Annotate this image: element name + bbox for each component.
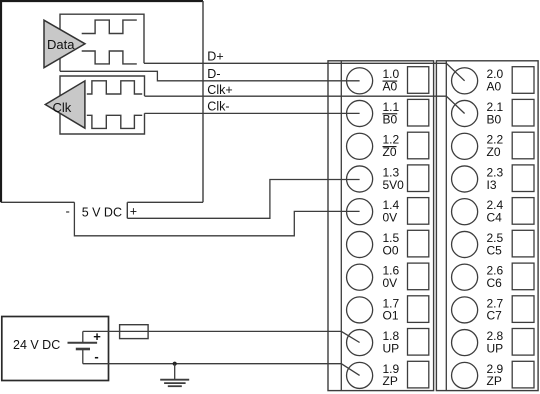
label terminal 1.8 UP: [383, 329, 400, 355]
label terminal 1.7 O1: [383, 296, 400, 322]
svg-text:5V0: 5V0: [383, 178, 405, 192]
svg-text:B0: B0: [487, 112, 502, 126]
label terminal 2.4 C4: [487, 198, 504, 224]
svg-text:D+: D+: [207, 50, 223, 64]
svg-text:UP: UP: [487, 341, 504, 355]
label terminal 2.2 Z0: [487, 133, 504, 159]
svg-text:Clk: Clk: [53, 100, 72, 115]
right terminal block outline: [436, 61, 538, 391]
svg-text:A0: A0: [383, 80, 398, 94]
label terminal 1.0 A0: [383, 67, 400, 93]
svg-text:I3: I3: [487, 178, 497, 192]
Clk amplifier triangle: [45, 81, 85, 128]
svg-text:Data: Data: [47, 37, 75, 52]
fuse F1: [120, 325, 149, 339]
label terminal 2.3 I3: [487, 165, 504, 191]
label terminal 2.0 A0: [487, 67, 504, 93]
svg-text:O0: O0: [383, 243, 399, 257]
Data amplifier triangle: [44, 20, 85, 67]
svg-text:5 V DC: 5 V DC: [82, 205, 122, 219]
right terminal block inner rail: [445, 61, 447, 391]
right block terminal circles 2.0-2.9: [452, 68, 478, 389]
left terminal block outline: [328, 61, 434, 391]
label terminal 1.6 0V: [383, 264, 400, 290]
wire 5V minus to terminal 1.4: [74, 202, 359, 236]
wire Clk+ to terminal 2.1: [145, 96, 465, 113]
label terminal 2.6 C6: [487, 264, 504, 290]
svg-text:O1: O1: [383, 309, 399, 323]
right block labels: [487, 67, 504, 388]
Data lower waveform: [82, 51, 137, 64]
right block connector squares: [512, 67, 534, 388]
label terminal 2.8 UP: [487, 329, 504, 355]
left block connector squares: [408, 67, 429, 388]
ground symbol: [160, 364, 189, 387]
svg-text:C4: C4: [487, 211, 503, 225]
label terminal 1.2 Z0: [383, 133, 400, 159]
svg-text:A0: A0: [487, 80, 502, 94]
svg-text:-: -: [94, 349, 98, 364]
junction dot ground tap: [173, 362, 177, 366]
svg-text:Z0: Z0: [487, 145, 501, 159]
wire 5V plus to terminal 1.3: [127, 180, 359, 219]
wire Clk- to terminal 1.1: [145, 112, 360, 114]
wire ZP 24V minus to terminal 1.9: [83, 364, 360, 376]
Clk lower waveform: [87, 115, 142, 128]
svg-text:UP: UP: [383, 341, 400, 355]
battery negative lead: [82, 349, 84, 364]
label terminal 1.4 0V: [383, 198, 400, 224]
Data driver box: [60, 14, 144, 71]
wire D- to terminal 1.0: [60, 71, 360, 81]
svg-text:B0: B0: [383, 112, 398, 126]
label terminal 2.9 ZP: [487, 362, 504, 388]
svg-text:Clk+: Clk+: [207, 83, 232, 97]
svg-text:24 V DC: 24 V DC: [13, 338, 60, 352]
left block labels: [383, 67, 405, 388]
left block terminal circles 1.0-1.9: [347, 68, 373, 389]
wire D+ to terminal 2.0: [144, 63, 465, 81]
label terminal 1.1 B0: [383, 100, 400, 126]
svg-text:ZP: ZP: [383, 374, 398, 388]
battery positive plate: [68, 342, 98, 344]
label terminal 1.5 O0: [383, 231, 400, 257]
left terminal block inner rail: [340, 61, 342, 391]
wire UP 24V plus to terminal 1.8: [83, 331, 360, 342]
battery positive lead: [82, 331, 84, 342]
battery negative plate: [76, 348, 90, 351]
label terminal 2.1 B0: [487, 100, 504, 126]
svg-text:C5: C5: [487, 243, 503, 257]
5 V DC source label block: [126, 202, 128, 218]
label terminal 1.3 5V0: [383, 165, 405, 191]
label terminal 2.5 C5: [487, 231, 504, 257]
Clk driver box: [60, 76, 145, 134]
signal source outer box: [0, 0, 203, 202]
svg-text:0V: 0V: [383, 211, 398, 225]
Clk upper waveform: [87, 81, 142, 94]
Data upper waveform: [82, 20, 137, 33]
svg-text:Z0: Z0: [383, 145, 397, 159]
label terminal 2.7 C7: [487, 296, 504, 322]
svg-text:C6: C6: [487, 276, 503, 290]
24 V DC source box: [2, 317, 109, 381]
svg-text:+: +: [130, 204, 137, 218]
label terminal 1.9 ZP: [383, 362, 400, 388]
svg-text:0V: 0V: [383, 276, 398, 290]
svg-text:ZP: ZP: [487, 374, 502, 388]
svg-text:Clk-: Clk-: [207, 100, 229, 114]
svg-text:C7: C7: [487, 309, 503, 323]
svg-text:D-: D-: [207, 67, 220, 81]
svg-text:-: -: [66, 203, 70, 218]
